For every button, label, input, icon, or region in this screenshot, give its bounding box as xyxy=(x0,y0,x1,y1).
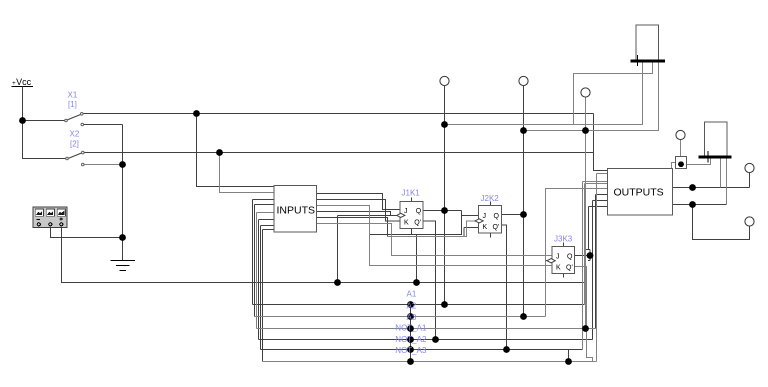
svg-text:J: J xyxy=(556,254,560,261)
svg-text:Q: Q xyxy=(567,254,573,261)
svg-text:NOT_A1: NOT_A1 xyxy=(395,324,427,333)
svg-text:J: J xyxy=(404,208,408,215)
svg-text:+Vcc: +Vcc xyxy=(12,77,32,87)
svg-text:J2K2: J2K2 xyxy=(481,194,500,203)
svg-text:NOT_A3: NOT_A3 xyxy=(395,346,427,355)
svg-text:K: K xyxy=(404,220,409,227)
svg-text:Q': Q' xyxy=(414,220,421,227)
svg-text:A1: A1 xyxy=(407,290,417,299)
svg-text:Q: Q xyxy=(416,208,422,215)
svg-text:A2: A2 xyxy=(407,302,417,311)
svg-text:Q': Q' xyxy=(566,265,573,272)
svg-text:X2: X2 xyxy=(70,130,80,139)
svg-text:A3: A3 xyxy=(407,313,417,322)
svg-text:[2]: [2] xyxy=(70,140,79,149)
svg-text:[1]: [1] xyxy=(68,100,77,109)
svg-text:INPUTS: INPUTS xyxy=(277,205,316,217)
svg-text:Q': Q' xyxy=(493,224,500,231)
svg-text:NOT_A2: NOT_A2 xyxy=(395,335,427,344)
svg-text:K: K xyxy=(483,224,488,231)
svg-text:OUTPUTS: OUTPUTS xyxy=(614,187,664,199)
svg-text:X1: X1 xyxy=(68,91,78,100)
svg-text:J: J xyxy=(483,213,487,220)
svg-text:J1K1: J1K1 xyxy=(402,189,421,198)
svg-text:K: K xyxy=(556,265,561,272)
svg-text:Q: Q xyxy=(494,213,500,220)
svg-text:J3K3: J3K3 xyxy=(554,235,573,244)
